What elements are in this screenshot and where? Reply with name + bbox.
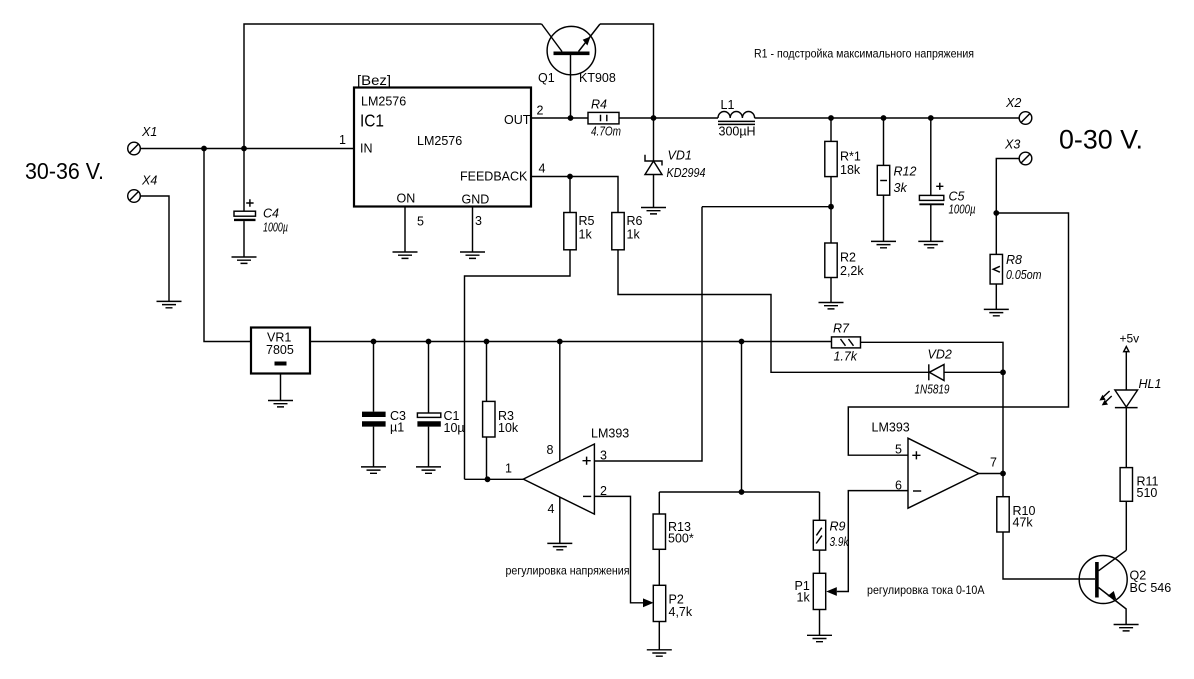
wire down to R*1 <box>830 118 832 141</box>
diode VD2 schottky <box>929 364 1003 380</box>
transistor Q1 <box>542 24 600 118</box>
pin number 6 <box>895 479 902 493</box>
svg-text:OUT: OUT <box>504 113 531 127</box>
resistor R3 <box>483 401 495 437</box>
svg-text:IC1: IC1 <box>360 111 384 131</box>
wire pin 4 to ground <box>559 497 561 543</box>
label LM2576 center <box>417 134 462 148</box>
wire R8 node to current sense line <box>848 213 1068 455</box>
svg-text:GND: GND <box>462 193 490 207</box>
label Q1 <box>538 71 555 85</box>
svg-text:0-30 V.: 0-30 V. <box>1059 124 1143 154</box>
pin label IN <box>360 142 373 156</box>
wire pin 6 inverting to P1 wiper <box>837 491 908 592</box>
label R6 <box>627 214 643 242</box>
ground below C3 <box>361 467 386 473</box>
svg-text:30-36 V.: 30-36 V. <box>25 158 104 184</box>
svg-text:10k: 10k <box>498 421 519 435</box>
resistor R8 shunt <box>990 213 1002 309</box>
svg-text:18k: 18k <box>840 163 861 177</box>
svg-text:510: 510 <box>1137 486 1158 500</box>
label VD1 type KD2994 <box>667 166 706 180</box>
junction C5 top <box>928 115 934 121</box>
svg-text:4.7Om: 4.7Om <box>591 125 621 139</box>
wire rail to R3 <box>486 342 488 402</box>
svg-text:регулировка тока 0-10А: регулировка тока 0-10А <box>867 583 985 597</box>
pin number 5 <box>417 215 424 229</box>
svg-text:300µH: 300µH <box>719 125 756 139</box>
capacitor C4 <box>234 149 256 258</box>
junction R3 and output node <box>485 476 491 482</box>
junction C1 on rail <box>426 339 432 345</box>
label VR1 <box>267 331 291 345</box>
label +5v <box>1120 332 1140 346</box>
svg-text:R7: R7 <box>833 322 850 336</box>
wire GND pin 3 to ground <box>472 207 474 253</box>
wire X4 to ground <box>140 196 169 301</box>
junction on X1 wire at VR1 branch <box>201 146 207 152</box>
voltage regulator VR1 7805 <box>251 328 310 374</box>
potentiometer P1 <box>813 573 825 609</box>
note current adjustment <box>867 583 985 597</box>
wire R13 to P2 <box>658 549 660 585</box>
svg-text:X1: X1 <box>141 125 157 139</box>
label X2 <box>1005 96 1021 110</box>
wire divider node to comparator riser <box>702 206 831 208</box>
svg-text:4: 4 <box>548 502 555 516</box>
resistor R7 <box>832 337 861 348</box>
ground below P1 <box>807 635 832 641</box>
label LM2576 top <box>361 95 406 109</box>
svg-text:1: 1 <box>505 462 512 476</box>
label [Bez] <box>357 72 391 88</box>
label R4 <box>591 98 607 112</box>
svg-text:1000µ: 1000µ <box>263 221 288 235</box>
ground below ON pin <box>393 252 418 258</box>
junction comparator outputs node pin 7 <box>1000 471 1006 477</box>
wire down to R12 <box>883 118 885 165</box>
ground below C4 <box>232 257 257 263</box>
wire R4 to L1 <box>619 117 718 119</box>
ground below R12 <box>871 241 896 247</box>
label LM393 first <box>591 427 629 441</box>
wire supply pin 8 <box>559 342 561 462</box>
wire OUT pin to R4 <box>531 117 588 119</box>
label HL1 <box>1139 377 1162 391</box>
junction feedback divider node <box>828 204 834 210</box>
arrow into P2 wiper <box>643 598 654 607</box>
pin number 1 op-amp <box>505 462 512 476</box>
wire ON pin 5 to ground <box>404 207 406 253</box>
svg-text:LM2576: LM2576 <box>417 134 462 148</box>
capacitor C5 <box>919 118 944 241</box>
ground below GND pin <box>460 252 485 258</box>
svg-text:L1: L1 <box>721 98 735 112</box>
resistor R9 <box>813 520 825 550</box>
label KT908 <box>579 71 616 85</box>
svg-text:R4: R4 <box>591 98 607 112</box>
note R1 adjustment <box>754 47 974 61</box>
svg-text:BC 546: BC 546 <box>1130 581 1172 595</box>
wire pin 2 inverting to P2 wiper <box>594 496 643 602</box>
label C1 10u <box>444 409 465 435</box>
pin number 8 <box>547 443 554 457</box>
note voltage adjustment <box>506 564 630 578</box>
wire R12 to ground <box>883 195 885 241</box>
label L1 value 300uH <box>719 125 756 139</box>
label R10 47k <box>1013 504 1036 530</box>
svg-text:LM2576: LM2576 <box>361 95 406 109</box>
pin label FEEDBACK <box>460 170 528 184</box>
svg-text:2,2k: 2,2k <box>840 264 864 278</box>
resistor R6 <box>612 213 624 250</box>
svg-text:1k: 1k <box>579 228 593 242</box>
junction VD2 cathode node <box>1000 369 1006 375</box>
label X3 <box>1004 138 1020 152</box>
wire R2 to ground <box>830 278 832 303</box>
pin number 3 <box>475 214 482 228</box>
pin number 7 <box>990 456 997 470</box>
LED HL1 <box>1099 390 1137 408</box>
label R11 510 <box>1137 475 1159 501</box>
svg-text:5: 5 <box>895 443 902 457</box>
pin number 2 <box>600 484 607 498</box>
svg-text:7805: 7805 <box>266 343 294 357</box>
svg-text:1: 1 <box>339 133 346 147</box>
label C3 u1 <box>390 409 406 435</box>
diode VD1 schottky <box>645 118 662 208</box>
label BC 546 <box>1130 581 1172 595</box>
svg-text:R12: R12 <box>894 165 917 179</box>
svg-text:HL1: HL1 <box>1139 377 1162 391</box>
svg-text:VD1: VD1 <box>668 149 692 163</box>
ground below VR1 <box>268 401 293 407</box>
svg-text:0.05om: 0.05om <box>1006 268 1042 282</box>
svg-text:X4: X4 <box>141 174 157 188</box>
label VD2 type 1N5819 <box>915 383 950 397</box>
terminal X4 <box>128 190 141 203</box>
label R3 10k <box>498 409 519 435</box>
wire R7 to comparator output pull-up node <box>861 342 1004 496</box>
label 7805 <box>266 343 294 357</box>
resistor R10 <box>997 497 1009 532</box>
pin number 2 <box>537 104 544 118</box>
wire to R9 <box>819 492 821 520</box>
label P2 4,7k <box>669 593 693 620</box>
junction Q1 base on OUT line <box>568 115 574 121</box>
wire Q1 emitter to output node <box>600 24 654 118</box>
wire op-amp U1 output pin 1 <box>465 478 524 480</box>
svg-text:1000µ: 1000µ <box>949 203 976 217</box>
svg-text:µ1: µ1 <box>390 421 404 435</box>
ground below R8 <box>984 309 1009 315</box>
svg-text:3.9k: 3.9k <box>830 535 850 549</box>
junction R12 top <box>881 115 887 121</box>
label R9 3.9k <box>830 520 850 550</box>
wire op-amp U2 output pin 7 <box>979 473 1003 475</box>
svg-text:4,7k: 4,7k <box>669 605 693 619</box>
svg-text:LM393: LM393 <box>872 421 910 435</box>
wire rail branch to R13 R9 tops <box>659 342 819 493</box>
label R5 <box>579 214 595 242</box>
resistor R11 <box>1120 468 1132 502</box>
ground below C5 <box>918 241 943 247</box>
junction R*1 top <box>828 115 834 121</box>
pin number 5 <box>895 443 902 457</box>
label R2 2,2k <box>840 251 864 279</box>
svg-text:R6: R6 <box>627 214 643 228</box>
wire input rail down to VR1 input <box>204 149 251 342</box>
pin label ON <box>397 192 416 206</box>
wire R6 bottom to VD2 anode line <box>618 250 929 372</box>
svg-text:KT908: KT908 <box>579 71 616 85</box>
wire P2 to ground <box>658 622 660 650</box>
pin label GND <box>462 193 490 207</box>
label VD1 <box>668 149 692 163</box>
wire pin 3 noninverting to divider <box>594 207 702 461</box>
wire +5V rail from VR1 to R7 <box>310 341 832 343</box>
power +5v arrow <box>1124 347 1129 352</box>
svg-text:7: 7 <box>990 456 997 470</box>
resistor R12 <box>877 165 889 195</box>
svg-text:500*: 500* <box>668 532 694 546</box>
label Q2 <box>1130 569 1147 583</box>
label 0-30 V. output voltage <box>1059 124 1143 154</box>
ground below P2 <box>647 650 672 656</box>
wire feedback to R5 <box>569 177 571 213</box>
pin number 1 <box>339 133 346 147</box>
svg-text:4: 4 <box>539 162 546 176</box>
ground below C1 <box>416 467 441 473</box>
terminal X2 <box>1019 112 1032 125</box>
wire input rail up to Q1 collector <box>244 24 542 149</box>
svg-text:KD2994: KD2994 <box>667 166 706 180</box>
svg-text:2: 2 <box>600 484 607 498</box>
svg-text:R8: R8 <box>1006 253 1022 267</box>
label 30-36 V. input voltage <box>25 158 104 184</box>
wire R9 to P1 <box>819 550 821 573</box>
resistor R5 <box>564 213 576 250</box>
terminal X3 <box>1019 152 1032 165</box>
svg-text:ON: ON <box>397 192 416 206</box>
wire X3 to R8 node <box>996 159 1019 214</box>
wire Q2 collector to R11 <box>1125 501 1127 550</box>
op-amp regulator IC1 LM2576 box <box>354 88 531 207</box>
svg-text:3: 3 <box>600 449 607 463</box>
resistor R*1 <box>825 141 837 176</box>
label VD2 <box>928 348 952 362</box>
svg-text:C4: C4 <box>263 207 279 221</box>
ground below X4 <box>157 301 182 307</box>
wire FEEDBACK pin to R6 <box>531 177 618 213</box>
arrow into P1 wiper <box>826 587 837 596</box>
junction R13 R9 feed <box>739 489 745 495</box>
svg-text:R*1: R*1 <box>840 150 861 164</box>
svg-text:R5: R5 <box>579 214 595 228</box>
wire VR1 tab to ground <box>280 374 282 401</box>
svg-text:R2: R2 <box>840 251 856 265</box>
resistor R4 <box>588 112 619 124</box>
svg-text:1.7k: 1.7k <box>834 350 858 364</box>
label C5 1000u <box>949 190 976 217</box>
label L1 <box>721 98 735 112</box>
ground below Q2 emitter <box>1114 625 1139 631</box>
svg-text:2: 2 <box>537 104 544 118</box>
wire R10 to Q2 base <box>1003 532 1095 579</box>
terminal X1 <box>128 142 141 155</box>
wire R11 to HL1 cathode <box>1125 408 1127 468</box>
svg-text:IN: IN <box>360 142 373 156</box>
pin number 4 <box>548 502 555 516</box>
svg-text:FEEDBACK: FEEDBACK <box>460 170 528 184</box>
junction R13 R9 feed on rail <box>739 339 745 345</box>
junction VD1 node <box>651 115 657 121</box>
svg-text:R1 - подстройка максимального: R1 - подстройка максимального напряжения <box>754 47 974 61</box>
ground below VD1 <box>641 208 666 214</box>
label R*1 18k <box>840 150 861 178</box>
svg-text:+5v: +5v <box>1120 332 1140 346</box>
svg-text:1k: 1k <box>797 591 811 605</box>
op-amp U2 LM393 second half <box>908 438 979 508</box>
svg-text:R9: R9 <box>830 520 846 534</box>
svg-text:[Bez]: [Bez] <box>357 72 391 88</box>
svg-text:8: 8 <box>547 443 554 457</box>
label X4 <box>141 174 157 188</box>
svg-text:10µ: 10µ <box>444 421 465 435</box>
wire R5 bottom to op-amp U1 output node <box>465 250 571 479</box>
junction op-amp supply pin 8 on rail <box>557 339 563 345</box>
wire L1 to X2 output <box>755 117 1020 119</box>
junction R3 on rail <box>484 339 490 345</box>
wire to R13 <box>658 492 660 514</box>
label C4 value <box>263 207 288 235</box>
wire R*1 to R2 <box>830 177 832 243</box>
label R13 500* <box>668 520 694 546</box>
svg-text:3: 3 <box>475 214 482 228</box>
pin number 4 <box>539 162 546 176</box>
junction on X1 wire at C4 branch <box>241 146 247 152</box>
svg-text:47k: 47k <box>1013 516 1034 530</box>
label P1 1k <box>795 579 811 605</box>
potentiometer P2 <box>653 585 665 621</box>
label X1 <box>141 125 157 139</box>
svg-text:X2: X2 <box>1005 96 1021 110</box>
resistor R2 <box>825 243 837 278</box>
ground below op-amp U1 <box>547 543 572 549</box>
svg-text:3k: 3k <box>894 181 908 195</box>
svg-text:Q1: Q1 <box>538 71 555 85</box>
junction R5 on feedback line <box>567 174 573 180</box>
resistor R13 <box>653 514 665 549</box>
svg-text:регулировка напряжения: регулировка напряжения <box>506 564 630 578</box>
transistor Q2 <box>1079 550 1127 624</box>
svg-text:5: 5 <box>417 215 424 229</box>
label R8 0.05om <box>1006 253 1042 282</box>
ground below R2 <box>819 303 844 309</box>
wire HL1 anode to +5v arrow <box>1125 352 1127 390</box>
label IC1 <box>360 111 384 131</box>
svg-text:C5: C5 <box>949 190 965 204</box>
wire X1 to IN pin of IC1 <box>140 148 354 150</box>
pin number 3 <box>600 449 607 463</box>
junction C3 on rail <box>371 339 377 345</box>
wire R3 bottom to op-amp output node <box>486 437 488 479</box>
inductor L1 <box>718 112 755 125</box>
svg-text:X3: X3 <box>1004 138 1020 152</box>
capacitor C1 <box>417 342 440 467</box>
svg-text:1N5819: 1N5819 <box>915 383 950 397</box>
label LM393 second <box>872 421 910 435</box>
pin label OUT <box>504 113 531 127</box>
label R7 1.7k <box>833 322 858 364</box>
svg-text:1k: 1k <box>627 228 641 242</box>
svg-text:VD2: VD2 <box>928 348 952 362</box>
op-amp U1 LM393 first half <box>523 444 594 514</box>
capacitor C3 <box>362 342 386 467</box>
label R12 3k <box>894 165 917 196</box>
label R4 value 4.7Om <box>591 125 621 139</box>
junction R8 top node <box>993 210 999 216</box>
wire P1 to ground <box>819 610 821 636</box>
svg-text:LM393: LM393 <box>591 427 629 441</box>
